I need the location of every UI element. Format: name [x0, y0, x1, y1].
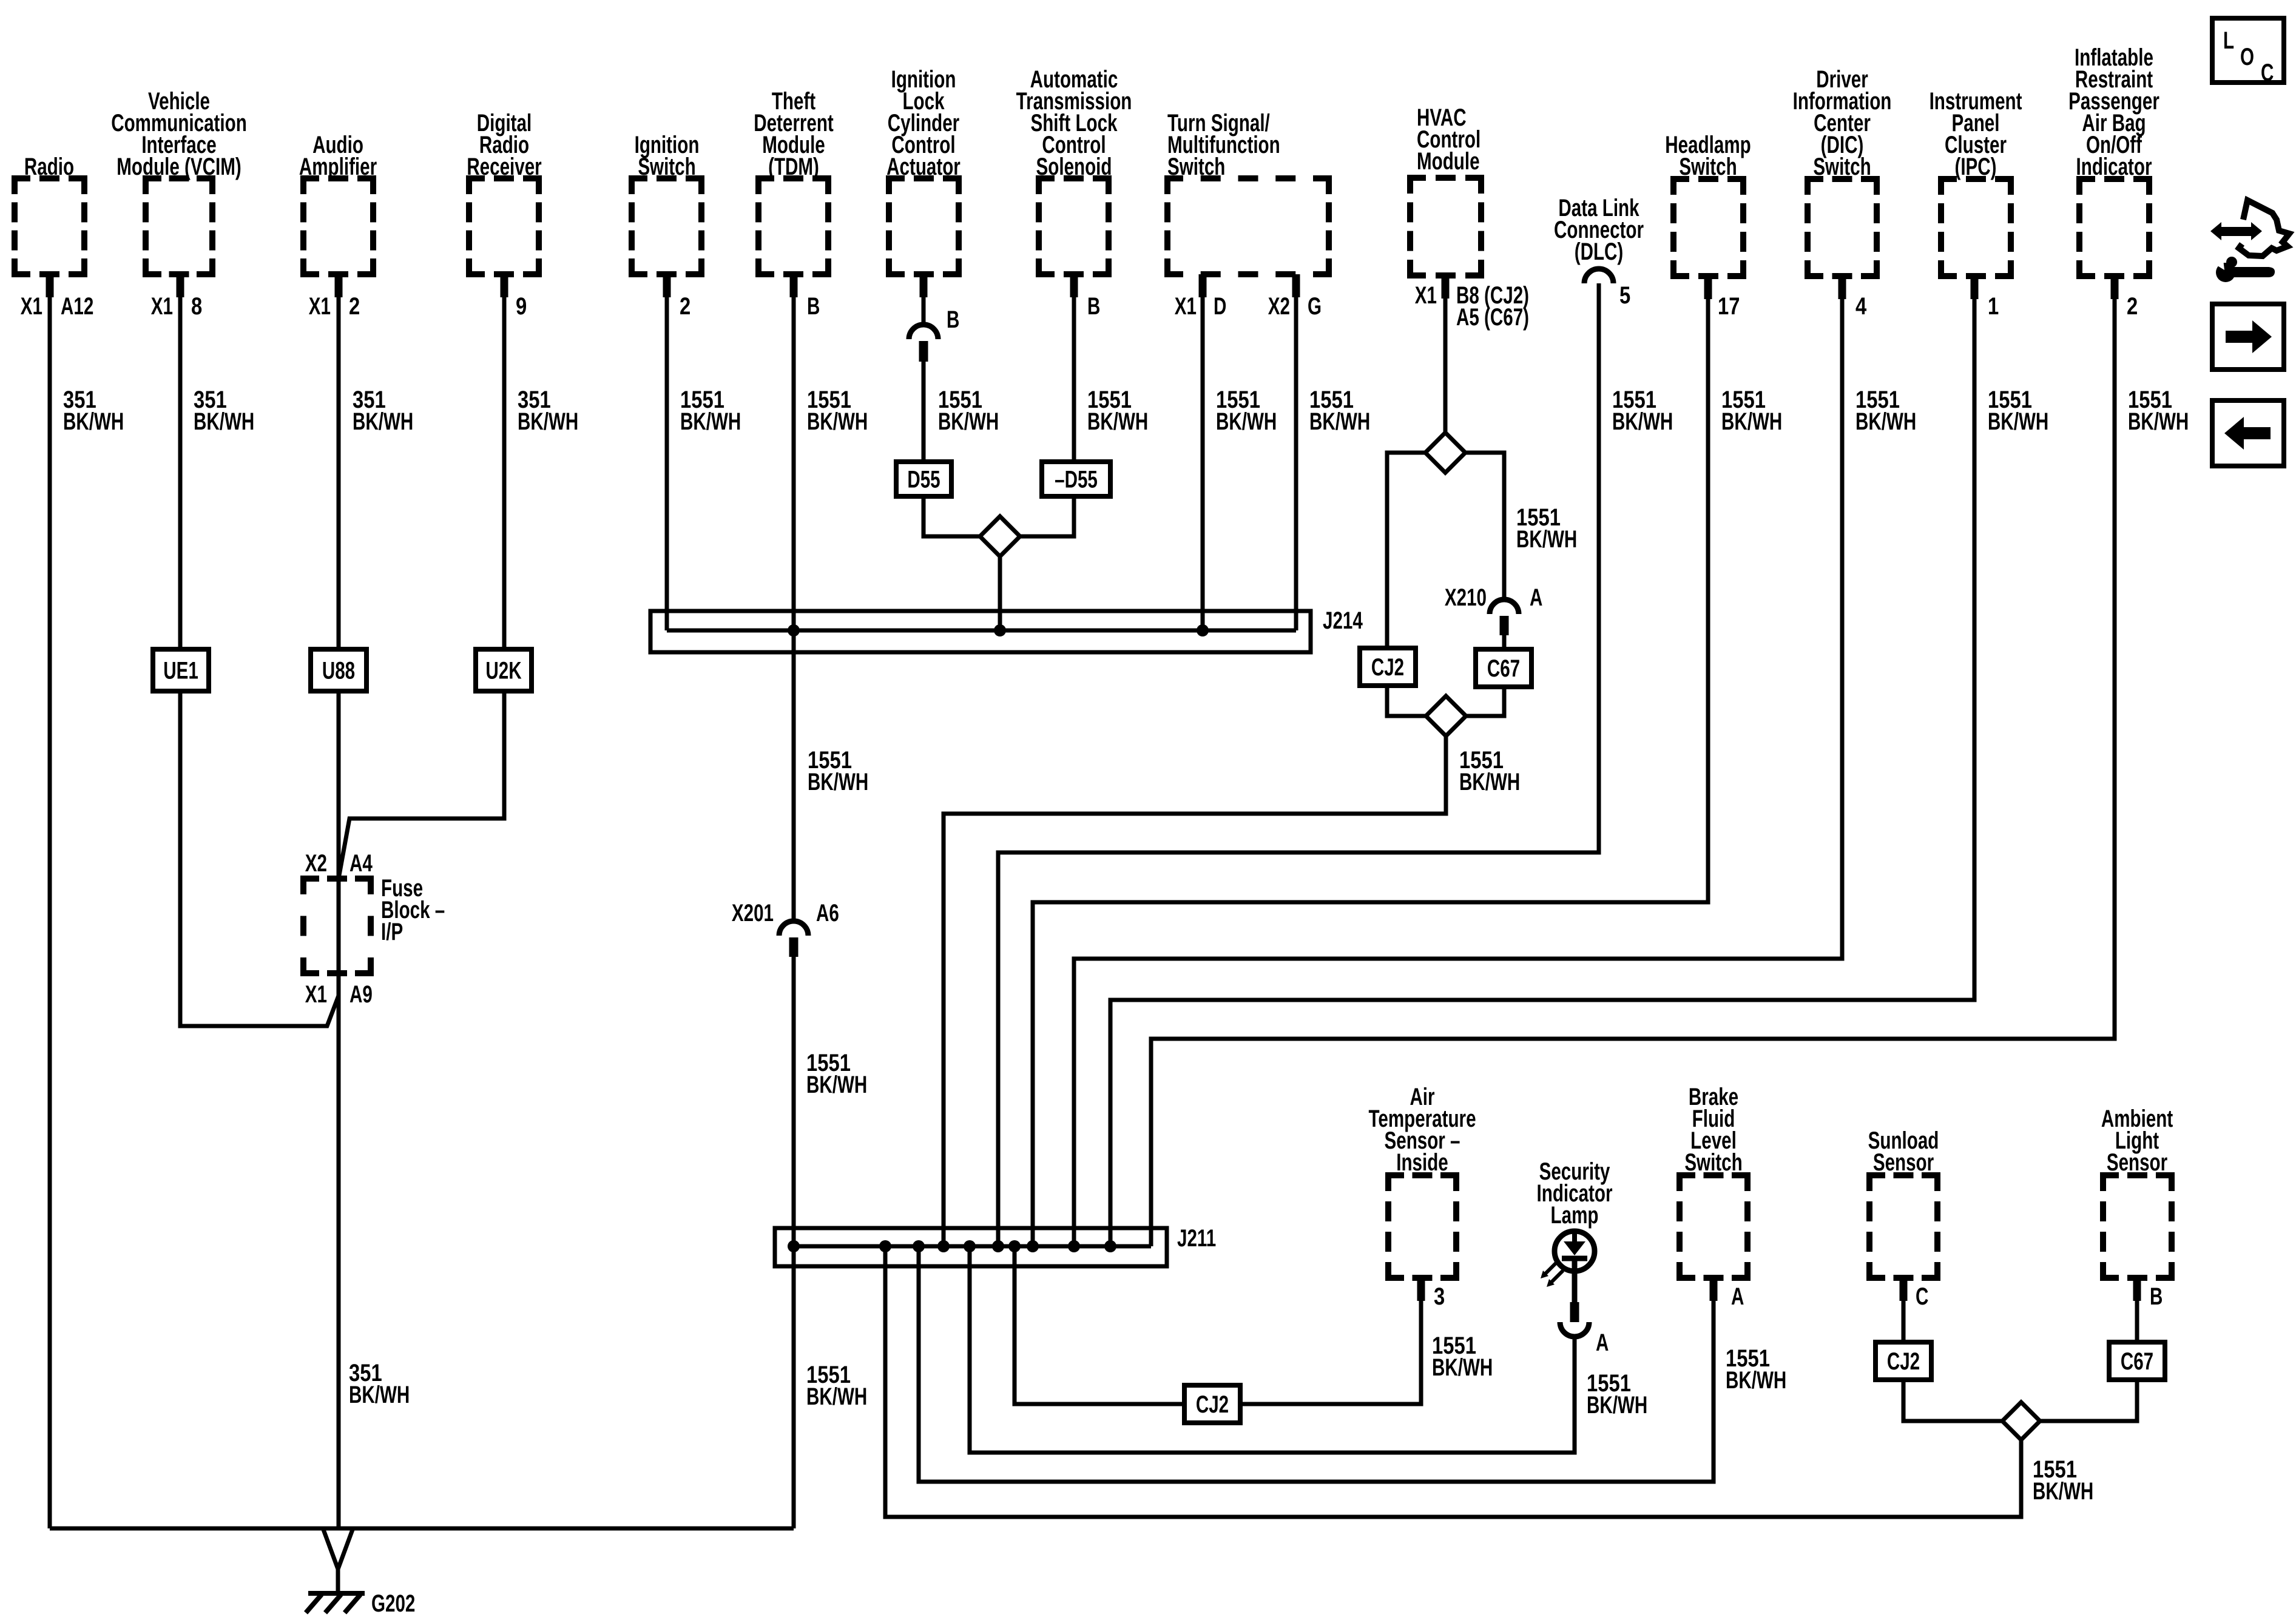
wire from CJ2 box to lower splice diamond — [1387, 686, 1427, 716]
ground bus wire along the bottom — [50, 1527, 794, 1531]
svg-text:G: G — [1308, 293, 1322, 320]
wire Audio Amplifier below U88 through Fuse Block to ground splice — [337, 691, 341, 1528]
svg-text:I/P: I/P — [381, 919, 403, 945]
pin A of Brake Fluid Level Switch — [1731, 1283, 1744, 1310]
wrench of diagnostic icon — [2216, 263, 2235, 282]
LED cathode bar — [1562, 1256, 1587, 1261]
svg-text:4: 4 — [1855, 292, 1867, 320]
svg-text:C: C — [1916, 1283, 1928, 1310]
svg-text:X1: X1 — [1175, 293, 1197, 320]
ground symbol G202 — [308, 1591, 365, 1596]
svg-text:–D55: –D55 — [1055, 466, 1098, 493]
svg-text:X2: X2 — [1268, 293, 1290, 320]
junction dot at J211 x=1702 — [1027, 1240, 1039, 1252]
wire from X210 to option code C67 — [1502, 635, 1507, 649]
junction block J211 — [775, 1228, 1167, 1266]
svg-text:Actuator: Actuator — [886, 154, 961, 180]
svg-text:UE1: UE1 — [163, 657, 198, 684]
wire CJ2 branch from diamond to CJ2 code box — [1387, 453, 1425, 648]
pin 4 of DIC Switch — [1855, 292, 1867, 320]
pin 17 of Headlamp Switch — [1718, 292, 1740, 320]
option code U2K — [476, 649, 532, 691]
svg-text:5: 5 — [1619, 282, 1630, 309]
component Driver Information Center DIC Switch (dashed box) — [1808, 179, 1877, 276]
lower splice diamond of HVAC branches — [1426, 696, 1466, 736]
option code CJ2 (HVAC branch) — [1360, 648, 1416, 686]
component Ambient Light Sensor (dashed box) — [2103, 1175, 2172, 1278]
wire from Actuator to connector B — [920, 274, 928, 297]
option code C67 (ambient branch) — [2109, 1342, 2165, 1380]
component Fuse Block - I/P (dashed box) — [303, 879, 371, 973]
wire from J211 to Air Temperature Sensor through CJ2 — [1015, 1246, 1184, 1404]
pin C of Sunload Sensor — [1916, 1283, 1928, 1310]
svg-text:A4: A4 — [349, 850, 373, 877]
component HVAC Control Module (dashed box) — [1410, 178, 1481, 275]
svg-text:BK/WH: BK/WH — [353, 408, 413, 435]
svg-text:B: B — [947, 306, 959, 333]
svg-text:L: L — [2223, 27, 2234, 54]
component Automatic Transmission Shift Lock Control Solenoid (dashed box) — [1039, 178, 1109, 274]
component Instrument Panel Cluster IPC (dashed box) — [1941, 179, 2011, 276]
splice diamond HVAC ground branches — [1425, 433, 1465, 473]
junction dot at J211 x=1830 — [1104, 1240, 1116, 1252]
svg-text:Receiver: Receiver — [467, 154, 542, 180]
svg-text:J211: J211 — [1177, 1225, 1216, 1252]
svg-text:Sensor: Sensor — [2107, 1149, 2168, 1176]
component Headlamp Switch (dashed box) — [1673, 179, 1743, 276]
svg-text:BK/WH: BK/WH — [680, 408, 741, 435]
wire 351 BK/WH from Audio Amplifier to fuse block X2 A4 — [335, 274, 343, 297]
wire from -D55 to splice diamond — [1019, 496, 1074, 536]
wire VCIM below UE1 to fuse block X1-A9 joint — [180, 691, 339, 1026]
svg-text:D55: D55 — [907, 466, 940, 493]
junction dot at J211 x=1514 — [913, 1240, 925, 1252]
wire from D55 to splice diamond — [923, 496, 981, 536]
svg-text:D: D — [1214, 293, 1226, 320]
component Data Link Connector DLC — [1558, 195, 1639, 221]
svg-text:Module: Module — [1417, 148, 1480, 175]
wire 1551 BK/WH from X201 A6 through J211 to ground line — [792, 957, 796, 1528]
LED internal lead wires — [1572, 1231, 1577, 1241]
component Audio Amplifier (dashed box) — [303, 178, 373, 274]
pin X1 A12 of Radio — [21, 293, 42, 320]
svg-text:G202: G202 — [371, 1590, 415, 1617]
svg-text:Inside: Inside — [1396, 1149, 1448, 1176]
wire 1551 BK/WH from Ignition Switch pin 2 to J214 — [663, 274, 671, 297]
wire from CJ2 to bottom splice diamond — [1903, 1380, 2004, 1421]
component Air Temperature Sensor - Inside (dashed box) — [1388, 1175, 1456, 1278]
inline connector pin B of Actuator — [909, 325, 938, 339]
svg-text:Indicator: Indicator — [2076, 154, 2152, 180]
svg-text:X210: X210 — [1445, 584, 1487, 611]
wire 1551 BK/WH from Brake Fluid Level Switch to J211 branch — [1710, 1278, 1718, 1301]
pin X1 A9 of Fuse Block — [305, 981, 327, 1008]
wire 1551 BK/WH from TDM pin B to X201 connector — [790, 274, 798, 297]
svg-text:C67: C67 — [2121, 1348, 2153, 1375]
wire from splice diamond down to J214 — [998, 556, 1002, 630]
svg-text:B: B — [2150, 1283, 2163, 1310]
svg-text:X1: X1 — [21, 293, 42, 320]
svg-text:17: 17 — [1718, 292, 1740, 320]
svg-text:BK/WH: BK/WH — [1309, 408, 1370, 435]
component Ignition Switch (dashed box) — [632, 178, 701, 274]
pin 9 of Digital Radio Receiver — [516, 292, 527, 320]
svg-text:A: A — [1530, 584, 1542, 611]
svg-text:U88: U88 — [322, 657, 355, 684]
svg-text:(TDM): (TDM) — [768, 154, 819, 180]
wire from Security Indicator Lamp to connector A — [1570, 1302, 1579, 1322]
component Vehicle Communication Interface Module VCIM (dashed box) — [146, 178, 212, 274]
junction dot at J211 x=1555 — [937, 1240, 950, 1252]
svg-text:X201: X201 — [732, 900, 774, 927]
component Digital Radio Receiver (dashed box) — [469, 178, 539, 274]
svg-text:X1: X1 — [1415, 282, 1437, 309]
svg-text:BK/WH: BK/WH — [1988, 408, 2048, 435]
svg-text:A6: A6 — [816, 900, 839, 927]
option code -D55 — [1042, 462, 1110, 496]
bottom splice diamond sunload and ambient sensors — [2002, 1402, 2040, 1440]
ground splice V crimp at G202 — [323, 1530, 353, 1593]
svg-text:BK/WH: BK/WH — [1216, 408, 1277, 435]
pin B of Ambient Light Sensor — [2150, 1283, 2163, 1310]
splice diamond for actuator and solenoid grounds — [980, 516, 1020, 556]
pins X1 D and X2 G of Multifunction Switch — [1175, 293, 1197, 320]
svg-text:X1: X1 — [309, 293, 331, 320]
svg-text:BK/WH: BK/WH — [1459, 769, 1520, 795]
option code D55 — [896, 462, 951, 496]
svg-text:Switch: Switch — [1684, 1149, 1742, 1176]
pin X1 8 of VCIM — [151, 293, 173, 320]
component Security Indicator Lamp (LED symbol) — [1539, 1158, 1610, 1185]
LED diode triangle of Security Indicator Lamp — [1564, 1241, 1585, 1255]
svg-text:CJ2: CJ2 — [1371, 654, 1404, 681]
svg-text:A5 (C67): A5 (C67) — [1456, 304, 1529, 331]
svg-text:A9: A9 — [349, 981, 373, 1008]
svg-text:BK/WH: BK/WH — [1726, 1367, 1786, 1394]
forward arrow legend box — [2212, 304, 2284, 370]
pin B of Shift Lock Solenoid — [1087, 293, 1100, 320]
svg-text:BK/WH: BK/WH — [1721, 408, 1782, 435]
svg-text:2: 2 — [349, 292, 360, 320]
svg-text:U2K: U2K — [485, 657, 522, 684]
option code UE1 — [153, 649, 209, 691]
junction dot at J211 x=1645 — [992, 1240, 1004, 1252]
svg-text:Lamp: Lamp — [1551, 1202, 1599, 1229]
option code CJ2 (sunload branch) — [1876, 1342, 1931, 1380]
svg-text:A: A — [1731, 1283, 1744, 1310]
wire 1551 BK/WH from Solenoid pin B to -D55 — [1070, 274, 1078, 297]
wire 1551 BK/WH from Air Bag Indicator routed to J211 — [2111, 276, 2119, 299]
svg-text:C67: C67 — [1487, 655, 1520, 682]
svg-text:Amplifier: Amplifier — [299, 154, 377, 180]
svg-text:BK/WH: BK/WH — [1587, 1392, 1647, 1419]
svg-text:Switch: Switch — [1679, 154, 1737, 180]
svg-text:Solenoid: Solenoid — [1036, 154, 1112, 180]
svg-text:1: 1 — [1988, 292, 1999, 320]
svg-text:BK/WH: BK/WH — [1432, 1354, 1493, 1381]
svg-text:Switch: Switch — [1813, 154, 1871, 180]
pin 3 of Air Temperature Sensor — [1434, 1283, 1445, 1310]
component Theft Deterrent Module TDM (dashed box) — [758, 178, 828, 274]
junction dot TDM at J214 — [788, 624, 800, 636]
component Sunload Sensor (dashed box) — [1869, 1175, 1937, 1278]
component Radio (dashed box) — [15, 178, 84, 274]
svg-text:X2: X2 — [305, 850, 327, 877]
svg-text:BK/WH: BK/WH — [938, 408, 999, 435]
wire 1551 BK/WH from Actuator B to splice diamond via D55 — [922, 362, 926, 462]
wire from Ambient Light Sensor to C67 code box — [2133, 1278, 2141, 1301]
wire 1551 BK/WH from lower diamond routed to J211 — [944, 736, 1446, 1246]
backward arrow legend box — [2212, 400, 2284, 466]
svg-text:Sensor: Sensor — [1873, 1149, 1934, 1176]
svg-text:BK/WH: BK/WH — [1087, 408, 1148, 435]
junction dot at J211 x=1672 — [1008, 1240, 1021, 1252]
pin stub of Air Temperature Sensor — [1417, 1278, 1425, 1301]
wire 1551 BK/WH from IPC routed to J211 — [1971, 276, 1979, 299]
svg-text:CJ2: CJ2 — [1196, 1391, 1229, 1418]
LED light emission arrows — [1545, 1262, 1557, 1274]
svg-text:A: A — [1596, 1329, 1609, 1356]
option code U88 — [311, 649, 366, 691]
pin 1 of IPC — [1988, 292, 1999, 320]
svg-text:3: 3 — [1434, 1283, 1445, 1310]
junction dot splice stem at J214 — [994, 624, 1006, 636]
wire 351 BK/WH below fuse block near ground — [349, 1359, 382, 1386]
junction dot at J211 x=1459 — [879, 1240, 891, 1252]
junction dot X1-D at J214 — [1197, 624, 1209, 636]
wire from HVAC Control Module to splice diamond — [1442, 275, 1450, 299]
J214 internal bus wire — [667, 629, 1296, 633]
svg-text:BK/WH: BK/WH — [807, 408, 868, 435]
wire 351 BK/WH from Radio A12 down to ground line — [46, 274, 54, 297]
svg-text:C: C — [2261, 59, 2274, 86]
svg-text:8: 8 — [191, 292, 202, 320]
wire 1551 BK/WH from Multifunction Switch X1-D to J214 — [1199, 274, 1207, 297]
wire from C67 to bottom splice diamond — [2040, 1380, 2137, 1421]
svg-text:BK/WH: BK/WH — [1612, 408, 1673, 435]
double arrow of diagnostic icon — [2210, 222, 2262, 240]
junction dot at J211 x=1598 — [964, 1240, 976, 1252]
wire 1551 BK/WH from lamp connector A to J211 branch — [970, 1246, 1575, 1453]
svg-text:BK/WH: BK/WH — [63, 408, 124, 435]
svg-text:BK/WH: BK/WH — [806, 1072, 867, 1098]
pins X1 B8 (CJ2) A5 (C67) of HVAC Control Module — [1415, 282, 1437, 309]
svg-text:BK/WH: BK/WH — [806, 1383, 867, 1410]
inline connector X210 pin A on C67 branch — [1490, 599, 1519, 614]
pin 5 of DLC — [1619, 282, 1630, 309]
wire 1551 BK/WH from DIC Switch routed to J211 — [1838, 276, 1846, 299]
junction block J214 — [650, 611, 1311, 652]
pin 2 of Ignition Switch — [680, 292, 690, 320]
wire from CJ2 box to Air Temperature Sensor pin 3 — [1240, 1278, 1421, 1404]
svg-text:2: 2 — [2127, 292, 2138, 320]
svg-text:Switch: Switch — [638, 154, 695, 180]
LOC legend box — [2212, 18, 2284, 83]
svg-text:B: B — [807, 293, 820, 320]
pin 2 of Air Bag Indicator — [2127, 292, 2138, 320]
svg-text:Switch: Switch — [1167, 154, 1225, 180]
wire 1551 BK/WH from bottom diamond to J211 branch — [885, 1246, 2021, 1517]
wire 1551 BK/WH from Headlamp Switch routed to J211 — [1704, 276, 1712, 299]
svg-text:A12: A12 — [61, 293, 93, 320]
wire from C67 box to lower splice diamond — [1467, 687, 1504, 716]
wire 351 BK/WH from Digital Radio Receiver pin 9 — [501, 274, 508, 297]
svg-text:BK/WH: BK/WH — [349, 1382, 410, 1408]
component Ignition Lock Cylinder Control Actuator (dashed box) — [889, 178, 959, 274]
svg-text:X1: X1 — [151, 293, 173, 320]
svg-text:BK/WH: BK/WH — [2128, 408, 2189, 435]
svg-text:BK/WH: BK/WH — [1855, 408, 1916, 435]
svg-text:BK/WH: BK/WH — [194, 408, 254, 435]
svg-text:J214: J214 — [1323, 607, 1363, 634]
pin X2 A4 of Fuse Block — [305, 850, 327, 877]
option code CJ2 (air temperature branch) — [1184, 1385, 1240, 1423]
svg-text:O: O — [2240, 44, 2254, 70]
J211 internal bus wire — [794, 1244, 1151, 1249]
svg-text:BK/WH: BK/WH — [2033, 1478, 2093, 1505]
wire from Sunload Sensor to CJ2 code box — [1900, 1278, 1908, 1301]
svg-text:Module (VCIM): Module (VCIM) — [116, 154, 241, 180]
wire Digital Radio Receiver to fuse block X2-A4 joint — [339, 691, 504, 879]
option code C67 (HVAC branch) — [1476, 649, 1531, 687]
svg-text:(DLC): (DLC) — [1575, 238, 1624, 265]
svg-text:BK/WH: BK/WH — [808, 769, 868, 795]
diagnostic connector-shape and wrench icon — [2239, 200, 2289, 256]
component Inflatable Restraint Passenger Air Bag On/Off Indicator (dashed box) — [2079, 179, 2149, 276]
wire C67 branch from diamond to X210 connector — [1465, 453, 1504, 599]
pin X1 2 of Audio Amplifier — [309, 293, 331, 320]
component Turn Signal / Multifunction Switch (dashed box) — [1167, 178, 1329, 274]
inline connector pin A below Security Indicator Lamp — [1560, 1322, 1589, 1337]
wire 351 BK/WH from VCIM pin 8 to fuse block X1 A9 — [177, 274, 184, 297]
wire 1551 BK/WH from Multifunction Switch X2-G to J214 — [1292, 274, 1300, 297]
svg-text:CJ2: CJ2 — [1887, 1348, 1920, 1375]
component Brake Fluid Level Switch (dashed box) — [1680, 1175, 1747, 1278]
svg-text:BK/WH: BK/WH — [1516, 526, 1577, 553]
svg-text:(IPC): (IPC) — [1954, 154, 1996, 180]
svg-text:B: B — [1087, 293, 1100, 320]
svg-text:2: 2 — [680, 292, 690, 320]
svg-text:9: 9 — [516, 292, 527, 320]
svg-text:X1: X1 — [305, 981, 327, 1008]
svg-text:BK/WH: BK/WH — [518, 408, 578, 435]
pin B of TDM — [807, 293, 820, 320]
junction dot at J211 x=1770 — [1068, 1240, 1080, 1252]
inline connector X201 pin A6 on TDM wire — [779, 921, 808, 936]
junction dot at J211 x=1308 — [788, 1240, 800, 1252]
svg-text:Radio: Radio — [24, 154, 74, 180]
wire 1551 BK/WH from DLC pin 5 routed to J211 — [998, 283, 1599, 1246]
